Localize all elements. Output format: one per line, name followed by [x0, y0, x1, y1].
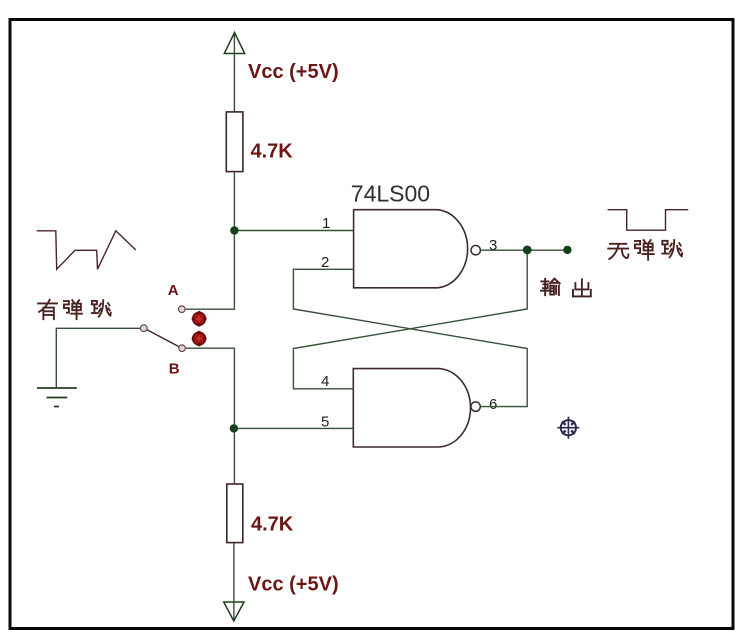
- char 有: [38, 300, 57, 319]
- red marker 2: [192, 331, 207, 347]
- svg-text:6: 6: [489, 396, 497, 413]
- svg-text:Vcc (+5V): Vcc (+5V): [248, 61, 339, 83]
- wire: node to gate2 pin5: [234, 427, 353, 429]
- wire: node to gate1 pin1: [234, 230, 353, 232]
- char 跳 (2): [662, 240, 682, 257]
- char 出: [573, 279, 591, 296]
- NAND gate U1A body: [354, 210, 468, 288]
- char 跳: [92, 300, 111, 316]
- svg-text:3: 3: [489, 237, 497, 254]
- char 弹: [64, 300, 82, 319]
- ground symbol: [37, 388, 77, 407]
- resistor R2 4.7K: [227, 484, 243, 543]
- svg-text:A: A: [168, 282, 179, 299]
- svg-text:4: 4: [321, 373, 329, 390]
- switch pivot contact: [140, 325, 147, 332]
- Vcc up-arrow symbol (top): [224, 33, 244, 54]
- switch contact A: [179, 306, 186, 313]
- svg-text:B: B: [169, 361, 180, 378]
- cursor crosshair: [557, 417, 579, 439]
- junction node (top): [230, 226, 238, 234]
- switch arm: [147, 330, 179, 347]
- svg-text:Vcc (+5V): Vcc (+5V): [248, 574, 339, 596]
- label 无弹跳 (no bounce): [608, 240, 682, 260]
- clean waveform icon: [608, 210, 689, 231]
- svg-text:74LS00: 74LS00: [351, 181, 430, 207]
- wire: node B column to R2: [186, 348, 234, 484]
- label 有弹跳 (with bounce): [38, 300, 111, 319]
- output terminal dot: [563, 246, 571, 254]
- wire: top Vcc feed to R1: [233, 33, 235, 112]
- switch contact B: [179, 345, 186, 352]
- NAND gate U1B body: [353, 369, 470, 447]
- char 无: [608, 244, 628, 259]
- wire: R2 to bottom Vcc arrow: [233, 543, 235, 621]
- resistor R1 4.7K: [226, 112, 243, 172]
- label 输出 (output): [541, 279, 591, 297]
- wire: gate1 output pin3 to output terminal: [480, 249, 567, 251]
- char 弹 (2): [635, 240, 654, 260]
- wire: gate1 output cross-couple to gate2 pin4: [293, 250, 527, 389]
- Vcc down-arrow symbol (bottom): [224, 602, 244, 621]
- NAND gate U1B output bubble: [471, 402, 480, 411]
- char 输: [541, 279, 560, 295]
- bouncing waveform icon: [37, 231, 136, 269]
- wire: R1 to node A column: [185, 172, 234, 310]
- svg-text:1: 1: [322, 215, 330, 232]
- svg-text:4.7K: 4.7K: [251, 514, 294, 536]
- wire: gate2 output cross-couple to gate1 pin2: [293, 269, 527, 406]
- svg-text:2: 2: [321, 254, 329, 271]
- junction node (bottom): [230, 424, 238, 432]
- junction node (output pin3): [523, 246, 532, 255]
- NAND gate U1A output bubble: [471, 246, 480, 255]
- svg-text:4.7K: 4.7K: [251, 141, 294, 163]
- wire: switch common to ground: [56, 328, 140, 387]
- red marker 1: [192, 311, 207, 327]
